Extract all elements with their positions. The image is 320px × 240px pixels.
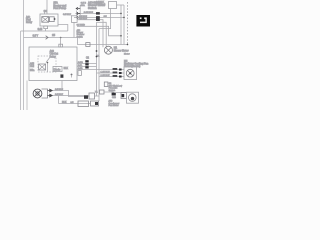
pin box bottom of relay — [44, 26, 48, 29]
relay K1 contact box — [49, 17, 54, 22]
wire dashed bus x127.5 — [127, 2, 129, 45]
component thermostat box T1 — [89, 93, 95, 99]
component fuse box top — [109, 2, 117, 9]
wire to fan motor 2 — [97, 72, 125, 74]
node junction dot on y37.5 — [60, 37, 62, 39]
pin bottom of control box — [60, 74, 63, 77]
component box on bottom wire — [78, 101, 89, 107]
wire from control box bottom pin — [61, 81, 63, 91]
motor M1 blower motor circle — [104, 46, 112, 54]
terminal arrow 1 — [76, 7, 80, 9]
wire control box output 1 — [77, 63, 97, 65]
node dot x96.5 y56.5 — [96, 56, 98, 58]
component lamp box under switch — [72, 16, 78, 23]
node relay pin dot — [54, 18, 56, 20]
component A/C control assembly box — [29, 47, 77, 81]
svg-text:Motor: Motor — [124, 53, 130, 56]
pin stub top left of relay — [44, 12, 46, 14]
wire to fan motor 1 — [99, 69, 124, 71]
wire left vertical C — [26, 81, 28, 111]
motor condenser fan box — [127, 92, 139, 103]
terminal arrow 2 — [76, 12, 80, 14]
svg-text:1.25 BLK: 1.25 BLK — [101, 75, 111, 77]
node dot x121 y35.8 — [120, 35, 122, 37]
relay K1 A/C-fuel pump relay box — [40, 14, 58, 26]
wire switch output y17.4 — [74, 16, 124, 18]
connector blobs at fan — [119, 69, 122, 71]
component box 2 on bottom wire — [91, 101, 99, 106]
wire stub from clutch wire down to y103.5 — [58, 96, 60, 104]
wire fused feed horizontal y31 — [21, 30, 68, 32]
wire contact vertical — [47, 63, 49, 73]
wire control box output 2 — [77, 66, 97, 68]
wire to fan motor 3 — [99, 76, 124, 78]
connector dark marks inside box2 — [95, 102, 98, 105]
svg-text:1.25 BLU: 1.25 BLU — [101, 71, 111, 73]
svg-text:Diode: Diode — [54, 68, 61, 71]
svg-text:0.5B: 0.5B — [78, 68, 83, 70]
connector inline box on y44.5 — [86, 43, 90, 47]
component box T2 — [100, 90, 105, 94]
wire right bus x121 — [120, 5, 122, 45]
svg-text:0.5 BLU: 0.5 BLU — [79, 18, 87, 20]
connector dark blob on wire — [112, 93, 116, 96]
svg-text:Fan Motor: Fan Motor — [109, 104, 119, 107]
label fan pin 1 — [113, 68, 118, 70]
clutch body rect — [42, 89, 48, 98]
wire branch y22.3 to blower motor — [97, 22, 107, 47]
component diode box inside — [53, 67, 62, 72]
switch blade inside K2 — [46, 57, 51, 63]
connector blob before T1 — [84, 95, 88, 98]
wire control box output 3 — [77, 69, 99, 71]
wire top loop y5 — [117, 4, 125, 6]
relay K2 coil box with X — [39, 64, 46, 70]
svg-text:BLK: BLK — [62, 101, 67, 104]
svg-text:85a: 85a — [30, 68, 35, 72]
wire switch output y26.3 — [77, 26, 121, 36]
svg-text:0.5 RED: 0.5 RED — [77, 25, 86, 27]
svg-text:1.25 BLK: 1.25 BLK — [96, 4, 106, 6]
wire relay pin to y31 — [45, 29, 47, 31]
connector pin stack — [85, 60, 88, 62]
svg-text:Switch: Switch — [77, 35, 84, 38]
switch S1 blower switch terminal column — [79, 5, 81, 18]
terminal arrow 3 — [76, 16, 80, 18]
svg-text:30A: 30A — [81, 4, 85, 7]
wire clutch 1 — [53, 91, 90, 97]
wire relay right side down — [58, 25, 68, 32]
wire from lamp box down to y37.5 — [73, 22, 75, 37]
wire branch y28.6 — [99, 9, 111, 29]
connector arrow pin 1 — [48, 89, 53, 92]
wire battery feed into relay top — [46, 0, 48, 14]
page marker icon square left — [140, 17, 142, 19]
switch S2 pressure switch symbol box — [104, 82, 108, 87]
svg-text:Switch: Switch — [109, 89, 116, 92]
svg-text:0.5 BLK: 0.5 BLK — [63, 14, 71, 16]
wire relay output y37.5 — [24, 38, 128, 45]
page marker icon white bar — [140, 22, 147, 24]
wire left vertical B — [20, 31, 22, 110]
motor M5 radiator fan box — [124, 67, 137, 80]
svg-text:0.5 Y: 0.5 Y — [33, 35, 39, 38]
label fan pin 3 — [113, 75, 118, 77]
wire switch output y13.4 — [80, 12, 121, 14]
svg-text:Relay: Relay — [26, 21, 33, 24]
pin right area small — [71, 74, 73, 76]
label fan pin 2 — [113, 72, 118, 74]
connector bump on control box top — [59, 44, 63, 47]
wire switch output y19.7 to blower motor — [77, 20, 103, 48]
clutch A/C compressor clutch circle — [33, 89, 42, 98]
svg-text:BLK: BLK — [64, 68, 69, 70]
wire mid vertical x98.5 — [98, 29, 100, 96]
wire clutch 2 — [53, 95, 90, 97]
connector inline arrow on y37.5 — [46, 36, 48, 40]
svg-text:0.85 BLU: 0.85 BLU — [84, 12, 94, 14]
connector blob y19.7 — [96, 19, 100, 22]
svg-text:25: 25 — [52, 33, 56, 37]
relay K1 coil box with X — [42, 17, 49, 23]
relay K2 dashed box inside — [38, 56, 56, 72]
connector blob y13.4 — [96, 12, 100, 15]
motor condenser fan circle — [129, 94, 137, 102]
wire mid vertical x95.5 — [96, 22, 98, 96]
page marker black box — [136, 15, 150, 27]
connector box before condenser fan — [121, 93, 127, 99]
svg-text:Fuel Pump: Fuel Pump — [53, 7, 66, 10]
node dot contact — [47, 62, 49, 64]
node dot x96.5 y51 — [96, 50, 98, 52]
page marker icon square right — [144, 17, 147, 19]
node dot x121 y13.4 — [120, 13, 122, 15]
page marker icon right hook — [145, 19, 146, 22]
svg-text:A15: A15 — [30, 62, 35, 65]
connector arrow pin 2 — [48, 94, 53, 97]
svg-text:0.85: 0.85 — [38, 28, 43, 31]
svg-text:0.5 BLK: 0.5 BLK — [55, 94, 63, 96]
wire stub above lamp box — [76, 11, 78, 16]
svg-text:0.5G: 0.5G — [78, 62, 83, 64]
wire T2 to condenser fan — [104, 91, 127, 94]
node dot x127.5 y44.5 — [127, 44, 129, 46]
motor M5 circle — [126, 69, 134, 77]
svg-text:30: 30 — [44, 9, 48, 13]
pin box on control box right edge — [78, 71, 81, 76]
wire left vertical bus A — [23, 0, 25, 110]
wire T1 to verticals — [95, 95, 100, 97]
svg-text:Switch: Switch — [88, 6, 97, 10]
svg-text:Blower Motor: Blower Motor — [114, 49, 129, 52]
wire stub into control box top — [60, 38, 62, 48]
connector blob y17.4 — [96, 16, 100, 19]
svg-text:Motor (Heater): Motor (Heater) — [124, 65, 141, 68]
wire right bus x124 — [123, 5, 125, 45]
svg-text:0.5 BLU: 0.5 BLU — [55, 89, 63, 91]
wire bottom BLK y103.5 — [59, 103, 91, 105]
wire vertical from box2 up — [98, 96, 100, 101]
node dot x124 y17.4 — [123, 17, 125, 19]
